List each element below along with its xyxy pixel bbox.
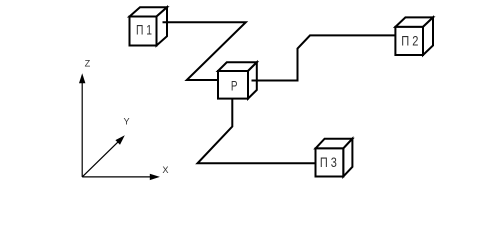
cube П2 [395, 17, 433, 55]
svg-text:Р: Р [231, 77, 238, 93]
wire П1 to P (zigzag) [163, 22, 246, 80]
axis X [82, 176, 151, 178]
svg-text:X: X [162, 165, 168, 175]
axis Y [82, 141, 119, 177]
axis Z [81, 83, 83, 177]
svg-text:П 3: П 3 [320, 154, 337, 170]
svg-text:П 1: П 1 [136, 21, 152, 37]
svg-text:Y: Y [124, 117, 130, 127]
cube П3 [316, 139, 353, 177]
cube P [218, 62, 257, 98]
svg-text:Z: Z [85, 59, 91, 69]
svg-text:П 2: П 2 [401, 33, 418, 49]
cube П1 [130, 7, 168, 45]
wire P to П3 (down zigzag) [198, 99, 316, 164]
wire P to П2 (step) [252, 35, 396, 80]
